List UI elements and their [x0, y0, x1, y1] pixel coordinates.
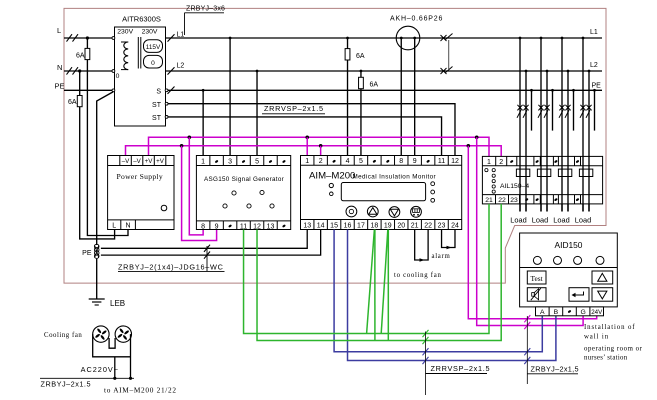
arrow on fan wire	[420, 258, 425, 262]
svg-text:N: N	[125, 223, 130, 230]
svg-text:23: 23	[438, 222, 446, 229]
svg-text:20: 20	[397, 222, 405, 229]
svg-text:PE: PE	[592, 83, 602, 90]
switch load4 pole L2	[586, 105, 591, 111]
junction lower bus / AID	[467, 144, 471, 148]
junction fan cable conductors	[113, 377, 116, 380]
link mark L1	[168, 34, 175, 41]
wire ASG12 to AIL22 (green lower)	[257, 204, 501, 341]
svg-text:6A: 6A	[76, 53, 85, 60]
svg-text:115V: 115V	[146, 44, 161, 51]
power supply U1	[108, 156, 174, 230]
wire load1 L1 drop	[519, 38, 521, 212]
wire fan cable drop	[114, 357, 116, 379]
fuse F4 6A	[359, 77, 364, 88]
fuse load1 in AIL150	[516, 169, 529, 176]
wire PE bar to ground	[96, 259, 98, 299]
svg-text:PE: PE	[55, 82, 65, 91]
wire AIM19 stub vertical (green)	[387, 230, 389, 341]
wire AIM19 stub slant (green)	[381, 230, 388, 334]
svg-text:PE: PE	[82, 250, 92, 257]
switch on L line	[67, 34, 73, 41]
svg-text:nurses’ station: nurses’ station	[584, 355, 628, 362]
svg-text:19: 19	[384, 222, 392, 229]
svg-text:ZRRVSP–2x1.5: ZRRVSP–2x1.5	[264, 104, 324, 113]
wire L2 secondary line	[166, 70, 603, 72]
svg-text:S: S	[156, 88, 161, 95]
svg-text:L2: L2	[590, 62, 598, 69]
switch load3 pole L2	[565, 105, 570, 111]
svg-text:AC220V~: AC220V~	[81, 365, 119, 374]
fan M2	[115, 326, 131, 342]
svg-text:12: 12	[253, 223, 261, 230]
wire load4 L2 drop	[588, 71, 590, 212]
svg-text:1: 1	[201, 158, 205, 165]
svg-text:3: 3	[228, 158, 232, 165]
svg-text:Load: Load	[510, 215, 526, 224]
svg-text:23: 23	[510, 197, 518, 204]
svg-text:22: 22	[498, 197, 506, 204]
svg-text:L: L	[57, 26, 61, 35]
svg-text:ASG150 Signal Generator: ASG150 Signal Generator	[204, 176, 284, 183]
wire load3 L2 drop	[567, 71, 569, 212]
wire load2 L1 drop	[540, 38, 542, 212]
svg-text:230V: 230V	[117, 29, 133, 36]
svg-text:ZRBYJ–2x1.5: ZRBYJ–2x1.5	[41, 380, 92, 389]
svg-text:9: 9	[215, 223, 219, 230]
svg-text:17: 17	[357, 222, 365, 229]
svg-text:–V: –V	[122, 158, 130, 165]
svg-text:2: 2	[319, 158, 323, 165]
wire lower bus to AID150 24V	[468, 146, 596, 319]
svg-text:ZRBYJ–3x6: ZRBYJ–3x6	[186, 6, 225, 13]
svg-text:24V: 24V	[591, 309, 603, 316]
svg-text:to cooling fan: to cooling fan	[394, 272, 442, 279]
transformer T1 AITR6300S	[112, 15, 168, 127]
wire AIM15 to AID A (blue)	[334, 230, 542, 352]
wire CT secondary to AIM terminal 8	[400, 38, 402, 156]
wire ST1 to AIM terminal 12	[168, 104, 455, 156]
svg-text:2: 2	[499, 159, 503, 166]
svg-text:Load: Load	[575, 215, 591, 224]
svg-text:Test: Test	[530, 274, 543, 283]
wire PE bar to AIM terminal 13	[101, 230, 307, 249]
wire -V supply bus (lower magenta)	[126, 146, 502, 157]
cable marks on green pair	[423, 330, 429, 337]
wire L1 via fuse to AIM terminal 4	[347, 38, 349, 156]
svg-text:Cooling fan: Cooling fan	[44, 332, 82, 339]
svg-text:AID150: AID150	[555, 240, 583, 250]
svg-text:0: 0	[151, 60, 155, 67]
svg-text:14: 14	[317, 222, 325, 229]
fuse F2 6A on N feed	[77, 96, 82, 107]
svg-text:LEB: LEB	[110, 299, 125, 308]
svg-text:ZRBYJ–2x1,5: ZRBYJ–2x1,5	[531, 364, 579, 373]
label ZRRVSP-2x1.5 with leader	[425, 332, 427, 396]
svg-text:ZRRVSP–2x1.5: ZRRVSP–2x1.5	[431, 364, 491, 373]
wire AIM18 stub slant (green)	[367, 230, 375, 334]
svg-text:0: 0	[116, 73, 120, 80]
wire upper bus to ASG terminal 8	[189, 137, 203, 235]
switch load4 pole L1	[580, 105, 585, 111]
link mark L2	[168, 67, 175, 74]
svg-text:ZRBYJ–2(1x4)–JDG16–WC: ZRBYJ–2(1x4)–JDG16–WC	[118, 262, 224, 271]
wire load1 L2 drop	[525, 71, 527, 212]
signal generator U2 ASG150	[196, 156, 290, 231]
PE terminal bar	[94, 244, 99, 249]
wire L2 to ASG terminal 5	[256, 71, 258, 156]
wire load3 pair through AIL150	[561, 156, 563, 211]
svg-text:24: 24	[451, 222, 459, 229]
switch QS1 on L2	[441, 68, 447, 74]
svg-text:alarm: alarm	[432, 253, 451, 260]
label ZRBYJ-2(1x4)-JDG16-WC with leader	[206, 246, 208, 271]
wire ST2 to AIM terminal 11	[168, 117, 442, 156]
wire fan link	[109, 338, 115, 348]
wire L1 to ASG terminal 3	[229, 38, 231, 156]
switch load3 pole L1	[559, 105, 564, 111]
load-isolator U4 AIL150-4	[482, 156, 602, 204]
switch load2 pole L1	[538, 105, 543, 111]
wire N input	[64, 70, 114, 72]
fuse F1 6A on L feed	[85, 48, 90, 59]
svg-text:4: 4	[346, 158, 350, 165]
svg-text:1: 1	[305, 158, 309, 165]
junction L	[86, 36, 89, 39]
svg-text:13: 13	[267, 223, 275, 230]
wire PE down to PE terminal bar	[97, 90, 114, 245]
switch load1 pole L2	[523, 105, 528, 111]
label ZRBYJ-2x1.5 with leader	[526, 316, 528, 384]
svg-text:B: B	[554, 309, 559, 316]
wire load2 pair through AIL150	[540, 156, 542, 211]
svg-text:operating room or: operating room or	[584, 346, 643, 353]
svg-text:wall in: wall in	[584, 334, 609, 341]
wire S / PE line	[168, 89, 602, 91]
svg-text:ST: ST	[152, 102, 162, 109]
wire load3 L1 drop	[561, 38, 563, 212]
arrow on alarm wire	[447, 246, 452, 250]
diagram border (room boundary)	[64, 8, 606, 283]
svg-text:5: 5	[255, 158, 259, 165]
wire lower bus to AIM terminal 2	[320, 146, 322, 156]
svg-text:AIM–M200: AIM–M200	[309, 171, 355, 182]
svg-text:L2: L2	[177, 63, 185, 70]
svg-text:5: 5	[359, 158, 363, 165]
svg-text:Medical Insulation Monitor: Medical Insulation Monitor	[353, 173, 437, 180]
wire CT secondary to AIM terminal 9	[414, 38, 416, 156]
wire L2 via fuse to AIM terminal 5	[360, 71, 362, 156]
svg-text:22: 22	[424, 222, 432, 229]
switch QS1 linkage	[448, 40, 450, 69]
switch on N line	[67, 67, 73, 74]
svg-text:8: 8	[399, 158, 403, 165]
svg-text:11: 11	[438, 158, 445, 165]
junction upper bus / AIM1	[305, 136, 309, 140]
svg-text:A: A	[540, 309, 545, 316]
svg-text:+V: +V	[156, 158, 165, 165]
wire N feed down (via fuse) to power-supply L terminal	[80, 71, 115, 239]
switch load2 pole L2	[544, 105, 549, 111]
wire AIM23/24 alarm	[442, 230, 455, 248]
fuse F3 6A	[345, 49, 350, 60]
wall indicator U5 AID150	[520, 233, 618, 316]
wire fan right feed	[130, 334, 132, 378]
wire load4 PE drop	[594, 90, 596, 130]
svg-text:AKH–0.66P26: AKH–0.66P26	[390, 16, 443, 23]
cable marks on AID magenta pair	[524, 315, 530, 322]
svg-text:16: 16	[344, 222, 352, 229]
ground LEB	[89, 298, 105, 300]
svg-text:9: 9	[413, 158, 417, 165]
svg-text:6A: 6A	[68, 99, 77, 106]
svg-text:230V: 230V	[142, 29, 158, 36]
junction lower bus / AIM2	[319, 144, 323, 148]
wire L1 secondary line	[166, 37, 603, 39]
svg-text:12: 12	[451, 158, 459, 165]
wire ASG11 to AIL21 (green upper)	[244, 204, 489, 334]
switch QS1 on L1	[441, 35, 447, 41]
svg-text:6A: 6A	[356, 53, 365, 60]
junction lower bus / ASG9	[180, 144, 184, 148]
fuse load3 in AIL150	[558, 169, 571, 176]
wire load4 L1 drop	[582, 38, 584, 212]
wire load3 PE drop	[573, 90, 575, 130]
wire fan left feed	[93, 334, 131, 357]
current transformer AKH-0.66P26	[396, 26, 420, 50]
svg-text:Load: Load	[553, 215, 569, 224]
junction N	[78, 69, 81, 72]
wire load2 PE drop	[552, 90, 554, 130]
insulation monitor U3 AIM-M200	[301, 156, 462, 230]
fuse load2 in AIL150	[537, 169, 550, 176]
svg-text:18: 18	[370, 222, 378, 229]
svg-text:1: 1	[487, 159, 491, 166]
svg-text:15: 15	[330, 222, 338, 229]
svg-text:6A: 6A	[370, 82, 379, 89]
wire load1 PE drop	[531, 90, 533, 130]
wire upper bus to AID150 G	[477, 137, 583, 325]
svg-text:ST: ST	[152, 115, 162, 122]
junction upper bus / ASG8	[188, 136, 192, 140]
wire load1 pair through AIL150	[519, 156, 521, 211]
wire AIM18 stub vertical (green)	[374, 230, 376, 341]
svg-text:8: 8	[201, 223, 205, 230]
wire +V supply bus (upper magenta)	[149, 137, 490, 156]
svg-text:21: 21	[485, 197, 493, 204]
wire PE bar to AIM terminal 14	[101, 230, 321, 256]
wire AIM16 to AID B (blue)	[348, 230, 556, 361]
wire load2 L2 drop	[546, 71, 548, 212]
svg-text:N: N	[57, 63, 62, 72]
svg-text:AITR6300S: AITR6300S	[122, 15, 161, 24]
link mark S	[168, 87, 175, 94]
wire S to ASG terminal 1	[202, 90, 204, 155]
label ZRBYJ-2x1.5 (fan cable)	[40, 377, 134, 379]
wire upper bus to AIM terminal 1	[306, 137, 308, 155]
switch load1 pole L1	[517, 105, 522, 111]
cable marks on blue pair	[423, 348, 429, 355]
svg-text:21: 21	[411, 222, 419, 229]
svg-text:Installation of: Installation of	[584, 324, 635, 331]
svg-text:Power Supply: Power Supply	[117, 172, 163, 181]
svg-text:Load: Load	[532, 215, 548, 224]
svg-text:AIL150–4: AIL150–4	[500, 183, 529, 190]
svg-text:L1: L1	[177, 32, 185, 39]
svg-text:G: G	[580, 309, 585, 316]
wire AIM21/22 to cooling fan	[415, 230, 428, 261]
wire L feed down (via fuse) to power-supply N terminal	[87, 38, 128, 236]
svg-text:L1: L1	[590, 29, 598, 36]
wire load4 pair through AIL150	[582, 156, 584, 211]
wire PE input	[64, 89, 113, 91]
svg-text:11: 11	[240, 223, 247, 230]
fan M1	[93, 326, 109, 342]
fuse load4 in AIL150	[579, 169, 592, 176]
svg-text:to AIM–M200 21/22: to AIM–M200 21/22	[104, 386, 177, 395]
svg-text:+V: +V	[145, 158, 154, 165]
wire lower bus to ASG terminal 9	[182, 146, 217, 241]
svg-text:L: L	[112, 223, 116, 230]
svg-text:13: 13	[303, 222, 311, 229]
svg-text:–V: –V	[133, 158, 141, 165]
junction upper bus / AID	[475, 136, 479, 140]
wire L input	[64, 37, 114, 39]
